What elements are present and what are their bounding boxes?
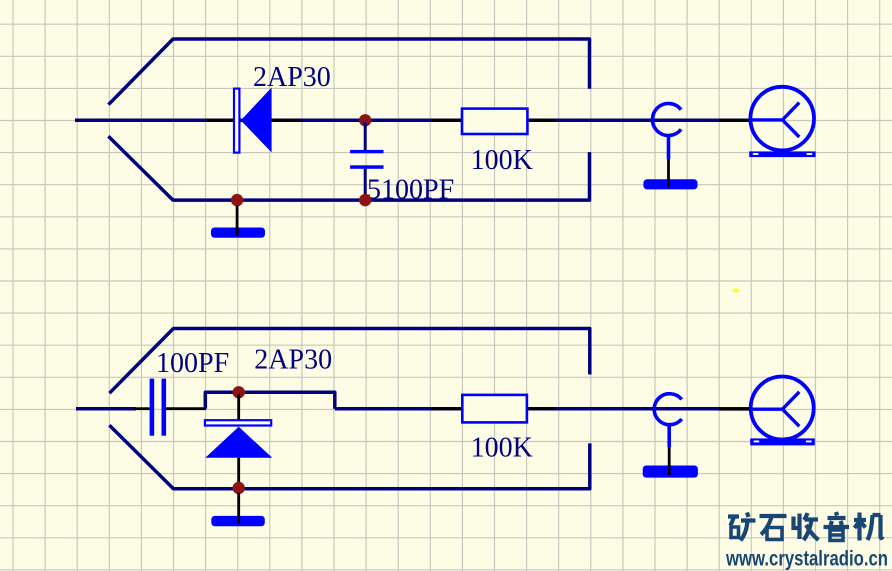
resistor R2 left pin	[431, 407, 462, 410]
ground lead (bottom circuit left)	[237, 493, 240, 524]
svg-text:100K: 100K	[471, 145, 533, 176]
resistor R2 right pin	[527, 407, 556, 410]
capacitor C2 left plate	[150, 379, 155, 436]
resistor R1 body	[462, 109, 527, 134]
earphone LS2 circle	[751, 377, 814, 440]
capacitor C2 right pin	[166, 407, 206, 410]
svg-text:2AP30: 2AP30	[253, 62, 331, 93]
wire: bottom main wire to earphone	[335, 407, 750, 411]
svg-text:100K: 100K	[471, 433, 533, 464]
diode D2 bottom pin	[237, 458, 240, 489]
ground lead (jack J2, black pin)	[668, 447, 671, 475]
diode D2 anode triangle	[205, 427, 272, 458]
diode D2 cathode bar	[205, 420, 271, 425]
wire: top main horizontal wire	[75, 118, 750, 122]
node: junction dot on main wire at capacitor C1	[359, 114, 371, 126]
jack J1 lower lead (blue)	[667, 136, 671, 160]
svg-text:5100PF: 5100PF	[367, 175, 454, 206]
earphone LS1 pin	[719, 119, 752, 122]
earphone LS2 pin	[719, 408, 752, 411]
jack J2 lower lead (blue)	[667, 425, 671, 447]
svg-text:100PF: 100PF	[156, 348, 229, 379]
diode D1 cathode bar	[234, 89, 239, 153]
earphone LS2 Y symbol	[751, 392, 800, 427]
capacitor C1 bottom plate	[350, 165, 383, 169]
earphone LS1 base bar	[749, 151, 815, 157]
ground lead (top circuit left)	[236, 205, 239, 236]
watermark logo text 矿石收音机 (drawn)	[728, 512, 883, 541]
antenna horn outline bottom half (bottom circuit) with bottom bus wire	[109, 425, 589, 489]
ground bar (top circuit left)	[211, 228, 265, 238]
jack J1 circle (open right)	[652, 103, 681, 135]
capacitor C1 top lead	[364, 122, 367, 150]
node: junction dot diode D2 top	[233, 386, 245, 398]
antenna horn outline top half (bottom circuit)	[109, 329, 589, 394]
earphone LS1 Y symbol	[751, 103, 800, 137]
node: junction dot ground tap on bottom bus	[231, 194, 243, 206]
capacitor C1 bottom lead	[364, 169, 367, 200]
earphone LS1 circle	[750, 87, 814, 151]
wire: bottom circuit feed wire	[76, 407, 136, 411]
node: junction dot capacitor C1 to bottom bus	[359, 194, 371, 206]
svg-text:2AP30: 2AP30	[254, 345, 332, 376]
stray yellow mark	[733, 289, 740, 293]
diode D1 anode triangle	[241, 88, 272, 153]
svg-text:www.crystalradio.cn: www.crystalradio.cn	[725, 548, 888, 571]
diode D1 right pin	[272, 119, 301, 122]
capacitor C1 top plate	[350, 150, 383, 153]
earphone LS2 base bar	[750, 438, 815, 445]
resistor R2 body	[462, 395, 527, 423]
resistor R1 left pin	[431, 119, 462, 122]
antenna horn outline top half (top circuit)	[108, 39, 589, 105]
resistor R1 right pin	[527, 119, 556, 122]
diode D2 top pin	[237, 394, 240, 420]
capacitor C2 right plate	[162, 379, 167, 436]
wire: raised jog segment over diode D2	[205, 392, 334, 408]
jack J2 circle (open right)	[654, 394, 682, 425]
ground bar (jack J2)	[643, 466, 698, 478]
antenna horn outline bottom half (top circuit) with bottom bus wire	[108, 136, 589, 200]
capacitor C2 left pin	[134, 407, 150, 410]
diode D1 left pin	[206, 119, 233, 122]
ground lead (jack J1, black pin)	[667, 159, 670, 187]
node: junction dot diode D2 bottom on bus	[233, 482, 245, 494]
ground bar (jack J1)	[643, 179, 697, 189]
ground bar (bottom circuit left)	[211, 516, 264, 526]
